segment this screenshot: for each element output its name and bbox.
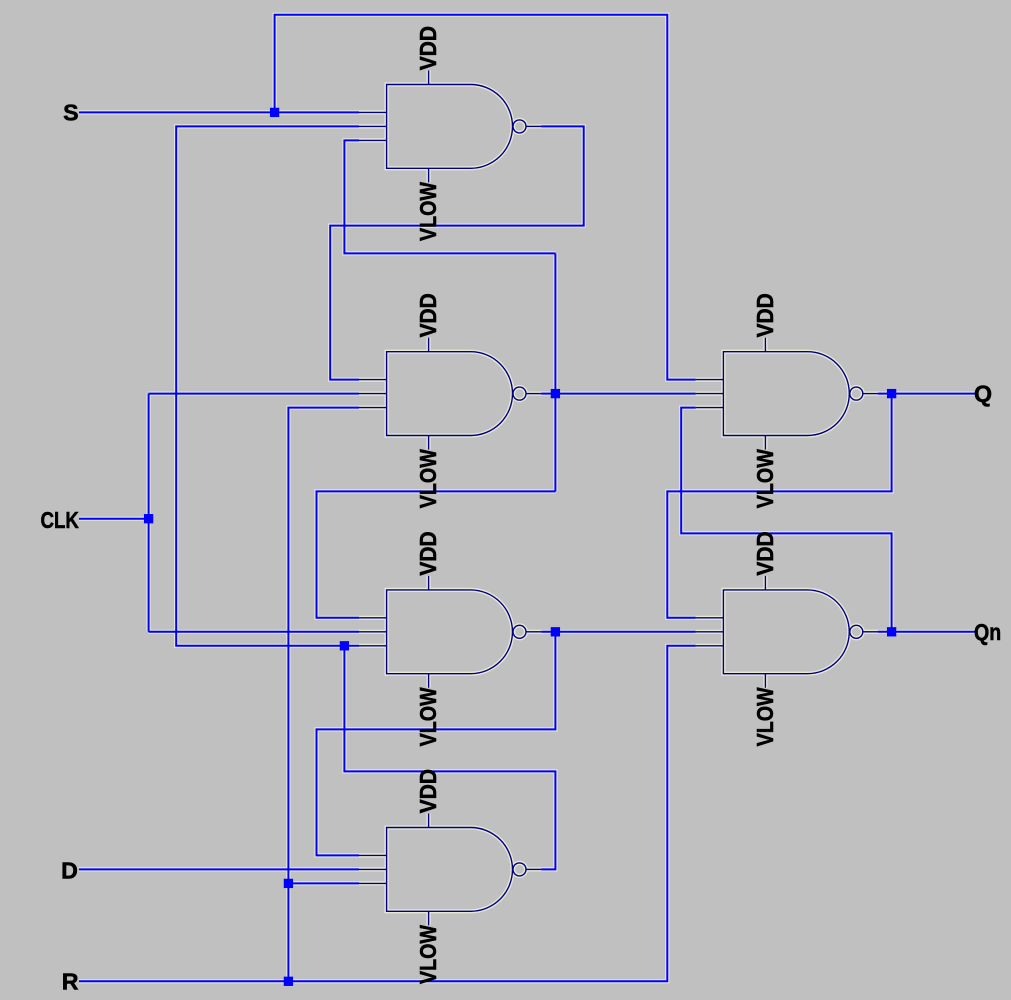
svg-text:D: D [61, 857, 78, 883]
NAND gate U5 output pin [863, 393, 878, 395]
svg-text:VLOW: VLOW [752, 449, 778, 508]
wire net R: R port across to U6 pin3 [79, 646, 696, 982]
junction at U6 output (net Qn) [887, 627, 896, 636]
junction at U2 output (net N2) [551, 389, 560, 398]
power pin VLOW of U6 [764, 674, 766, 688]
svg-text:CLK: CLK [41, 507, 80, 533]
svg-text:Q: Q [974, 381, 992, 407]
NAND gate U4 output pin [526, 868, 541, 870]
power pin VLOW of U2 [428, 436, 430, 450]
svg-text:VDD: VDD [752, 531, 778, 575]
svg-text:VDD: VDD [415, 293, 441, 337]
NAND gate U6 input pins 1,2,3 [696, 618, 724, 646]
NAND gate U6 body [723, 590, 849, 674]
NAND gate U5 body [723, 352, 849, 436]
junction at U5 output (net Q) [887, 389, 896, 398]
wire net Q: feedback to U6 pin1 [667, 394, 891, 618]
svg-text:VDD: VDD [752, 293, 778, 337]
wire net R: vertical trunk up to U2 pin3 [288, 408, 359, 982]
power pin VDD of U5 [764, 338, 766, 352]
wire net N2: vertical through junction at U2 output [554, 253, 556, 491]
NAND gate U1 input pins 1,2,3 [359, 112, 387, 140]
wire net N4: U1 pin2 trunk down to U3 pin3 [176, 126, 359, 645]
svg-text:VDD: VDD [415, 769, 441, 813]
NAND gate U2 body [387, 352, 513, 436]
wire net CLK: branch to U3 pin2 [149, 631, 359, 633]
NAND gate U3 body [387, 590, 513, 674]
svg-text:S: S [63, 100, 78, 126]
svg-text:VLOW: VLOW [415, 687, 441, 746]
wire net D: D port to U4 pin2 [79, 868, 359, 870]
wire net Q: U5 output to Q port [878, 393, 975, 395]
svg-text:R: R [62, 969, 79, 995]
power pin VDD of U1 [428, 71, 430, 85]
svg-text:VLOW: VLOW [415, 182, 441, 241]
junction on net S [270, 108, 279, 117]
power pin VDD of U3 [428, 576, 430, 590]
junction on net R at U4 pin3 [284, 879, 293, 888]
NAND gate U3 input pins 1,2,3 [359, 618, 387, 646]
wire net CLK: CLK port to junction [79, 518, 149, 520]
NAND gate U1 output bubble [513, 120, 526, 133]
NAND gate U4 output bubble [513, 863, 526, 876]
power pin VLOW of U3 [428, 674, 430, 688]
junction at U3 output (net N3) [551, 627, 560, 636]
wire net Qn: U6 output to Qn port [878, 631, 975, 633]
wire net N4: U4 output up to junction [344, 646, 555, 870]
svg-text:VDD: VDD [415, 531, 441, 575]
NAND gate U3 output pin [526, 631, 541, 633]
wire net N1: U1 output to U2 pin1 [330, 126, 584, 379]
wire net Qn: feedback to U5 pin3 [681, 408, 891, 632]
wire net N2: upper branch to U1 pin3 [344, 140, 555, 253]
svg-text:Qn: Qn [974, 619, 1001, 645]
NAND gate U2 input pins 1,2,3 [359, 380, 387, 408]
NAND gate U2 output bubble [513, 387, 526, 400]
NAND gate U5 output bubble [850, 387, 863, 400]
wire net N2: lower branch to U3 pin1 [317, 491, 556, 617]
wire net R: branch to U4 pin3 [288, 882, 359, 884]
wire net N3: branch down to U4 pin1 [317, 632, 556, 856]
svg-text:VLOW: VLOW [415, 449, 441, 508]
power pin VLOW of U4 [428, 911, 430, 925]
wire net N3: U3 output to U6 pin2 [541, 631, 696, 633]
wire net S: S port to U1 pin1 [79, 111, 359, 113]
svg-text:VDD: VDD [415, 26, 441, 70]
wire net CLK: branch to U2 pin2 [149, 393, 359, 395]
junction on net R at R port [284, 977, 293, 986]
svg-text:VLOW: VLOW [415, 925, 441, 984]
power pin VDD of U6 [764, 576, 766, 590]
power pin VLOW of U1 [428, 168, 430, 182]
power pin VDD of U4 [428, 814, 430, 828]
wire net CLK: vertical trunk [148, 394, 150, 632]
NAND gate U6 output pin [863, 631, 878, 633]
junction on net CLK [144, 514, 153, 523]
NAND gate U6 output bubble [850, 625, 863, 638]
NAND gate U2 output pin [526, 393, 541, 395]
power pin VDD of U2 [428, 338, 430, 352]
wire net S: branch up over the top to U5 pin1 [275, 15, 696, 380]
svg-text:VLOW: VLOW [752, 687, 778, 746]
power pin VLOW of U5 [764, 436, 766, 450]
NAND gate U4 input pins 1,2,3 [359, 855, 387, 883]
NAND gate U4 body [387, 828, 513, 912]
NAND gate U3 output bubble [513, 625, 526, 638]
NAND gate U1 output pin [526, 125, 541, 127]
wire net N2: U2 output to U5 pin2 [541, 393, 696, 395]
NAND gate U1 body [387, 85, 513, 169]
NAND gate U5 input pins 1,2,3 [696, 380, 724, 408]
junction on net N4 [340, 641, 349, 650]
